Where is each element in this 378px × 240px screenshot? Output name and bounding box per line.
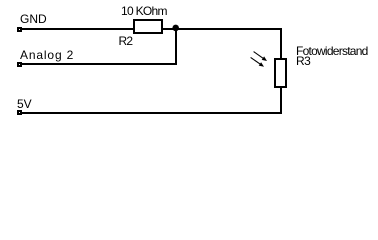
node GND terminal pin [17, 27, 22, 32]
label GND [20, 13, 47, 25]
wire 5V horizontal [21, 112, 282, 114]
label Analog 2 [20, 49, 74, 61]
node 5V terminal pin [17, 110, 22, 115]
node Analog 2 terminal pin [17, 62, 22, 67]
resistor R2 [133, 19, 163, 34]
wire junction down to Analog 2 line [175, 28, 177, 65]
label R2 [119, 35, 133, 47]
node junction dot [170, 22, 182, 34]
wire GND horizontal to R2 [21, 28, 134, 30]
wire R3 top lead vertical [280, 28, 282, 58]
label 5V [17, 98, 32, 110]
light arrows into R3 [246, 46, 272, 72]
wire R3 bottom lead vertical [280, 88, 282, 114]
label R3 [296, 55, 310, 67]
wire R2 right to corner above R3 [163, 28, 282, 30]
label Fotowiderstand [296, 45, 368, 57]
wire Analog 2 horizontal [21, 63, 177, 65]
label 10 KOhm [121, 5, 167, 17]
photoresistor R3 body [274, 58, 287, 88]
